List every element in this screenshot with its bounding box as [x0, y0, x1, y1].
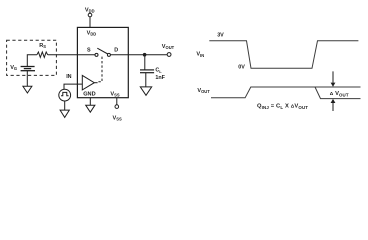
svg-text:1nF: 1nF: [155, 75, 165, 81]
ground (CL): [140, 87, 151, 95]
ground (GND pin): [86, 105, 95, 112]
switch contact S: [95, 53, 98, 56]
ground (VG source): [23, 86, 32, 93]
svg-text:VDD: VDD: [85, 7, 95, 13]
wire junction to CL: [144, 55, 146, 70]
svg-text:S: S: [87, 47, 91, 53]
wire buffer output stub: [94, 82, 97, 84]
svg-text:VDD: VDD: [87, 30, 97, 36]
dashed enclosure (signal source): [7, 40, 57, 75]
annotation delta VOUT arrows: [331, 71, 336, 111]
switch box U1: [77, 27, 128, 97]
switch arm: [97, 48, 108, 54]
svg-text:3V: 3V: [217, 32, 224, 38]
svg-text:VOUT: VOUT: [162, 44, 175, 50]
svg-text:VIN: VIN: [196, 52, 204, 58]
wire D to VOUT: [128, 54, 167, 56]
waveform VOUT: [211, 87, 361, 98]
svg-text:VSS: VSS: [110, 92, 119, 98]
wire VG to RS: [27, 55, 37, 67]
svg-text:CL: CL: [155, 68, 162, 74]
svg-text:Δ VOUT: Δ VOUT: [330, 91, 349, 97]
wire RS to pin S: [48, 54, 78, 56]
switch contact D: [107, 53, 110, 56]
wire VSS: [116, 98, 118, 105]
svg-text:D: D: [114, 47, 118, 53]
svg-text:VSS: VSS: [113, 115, 122, 121]
svg-text:VG: VG: [10, 65, 17, 71]
waveform VOUT falling edge: [315, 87, 361, 99]
wire CL to ground: [145, 73, 147, 87]
dashed control line: [98, 57, 102, 82]
terminal VOUT: [167, 53, 171, 57]
svg-text:0V: 0V: [238, 64, 245, 70]
wire into switch pin S: [77, 54, 95, 56]
waveform VIN: [209, 41, 358, 69]
terminal VSS: [115, 105, 119, 109]
wire IN: [64, 84, 82, 89]
resistor RS: [37, 52, 48, 57]
battery VG: [21, 67, 35, 71]
svg-text:RS: RS: [39, 43, 46, 49]
buffer driver: [82, 75, 94, 90]
wire pulse generator to ground: [64, 101, 66, 110]
ground (pulse generator): [60, 110, 69, 117]
pulse generator: [59, 89, 71, 101]
wire from switch pin D: [110, 54, 128, 56]
wire GND: [89, 98, 91, 105]
junction node: [143, 53, 147, 57]
terminal VDD: [85, 7, 95, 27]
svg-text:VOUT: VOUT: [197, 88, 210, 94]
svg-text:IN: IN: [66, 74, 71, 80]
svg-text:QINJ = CL X ΔVOUT: QINJ = CL X ΔVOUT: [257, 104, 308, 110]
svg-text:GND: GND: [83, 92, 95, 98]
capacitor CL: [140, 70, 154, 73]
wire VG to ground: [26, 71, 28, 87]
